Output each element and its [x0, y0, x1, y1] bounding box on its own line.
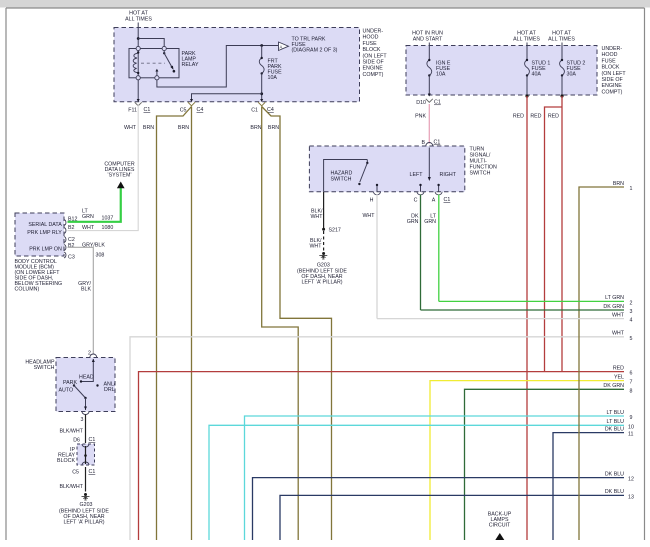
svg-text:(DIAGRAM 2 OF 3): (DIAGRAM 2 OF 3) [292, 48, 338, 54]
svg-text:RED: RED [513, 114, 524, 120]
svg-text:DK GRN: DK GRN [603, 304, 624, 310]
svg-text:SERIAL DATA: SERIAL DATA [28, 222, 62, 228]
svg-text:B: B [421, 140, 425, 146]
svg-text:LEFT ’A’ PILLAR): LEFT ’A’ PILLAR) [301, 280, 342, 286]
svg-text:9: 9 [630, 415, 633, 421]
wire WHT stub5 vertical [130, 337, 624, 540]
svg-text:G203: G203 [80, 502, 93, 508]
svg-text:BLK/WHT: BLK/WHT [59, 429, 83, 435]
turn signal internal feed [428, 148, 430, 178]
label UNDER-HOOD FUSE BLOCK (right box) [602, 46, 627, 95]
label BODY CONTROL MODULE [15, 259, 63, 293]
node fuse top junction [260, 44, 263, 47]
pin A inside [438, 186, 440, 192]
svg-text:4: 4 [630, 318, 633, 324]
svg-text:ENGINE: ENGINE [363, 66, 384, 72]
wire BLK/WHT hazard to S217 [323, 192, 325, 230]
wire DK BLU stub13 [280, 495, 624, 540]
svg-text:2: 2 [630, 301, 633, 307]
wire YEL stub7 [430, 381, 624, 540]
terminal C5/C4 [188, 102, 195, 106]
relay common pin [156, 71, 158, 76]
svg-text:A: A [280, 44, 283, 49]
svg-text:DK BLU: DK BLU [605, 471, 624, 477]
svg-text:D6: D6 [73, 438, 80, 444]
wire feed into fuse block 1 [137, 23, 139, 49]
terminal H cup [374, 192, 381, 195]
svg-text:8: 8 [630, 388, 633, 394]
svg-text:FUSE: FUSE [602, 58, 617, 64]
svg-text:5: 5 [630, 336, 633, 342]
terminal A cup [435, 192, 442, 195]
svg-text:UNDER-: UNDER- [363, 29, 384, 35]
hazard switch contact arm [366, 160, 368, 164]
label HAZARD SWITCH [331, 171, 353, 183]
node stud2 output [560, 94, 563, 97]
svg-text:SWITCH: SWITCH [331, 177, 352, 183]
wire DK GRN from C [420, 195, 422, 311]
wire LT BLU stub9 [245, 416, 625, 540]
svg-text:UNDER-: UNDER- [602, 46, 623, 52]
wire DK GRN stub8 [465, 389, 625, 540]
fuse symbol IGN E FUSE 10A [427, 60, 432, 76]
svg-text:F11: F11 [128, 108, 137, 114]
svg-text:HEAD: HEAD [79, 375, 94, 381]
ground G203 (headlamp) [84, 493, 87, 496]
svg-text:LT BLU: LT BLU [607, 419, 625, 425]
svg-text:YEL: YEL [614, 374, 624, 380]
svg-text:BRN: BRN [143, 125, 154, 131]
label UNDER-HOOD FUSE BLOCK (left box) [363, 29, 388, 78]
svg-text:C: C [414, 198, 418, 204]
relay terminal circles [136, 46, 140, 50]
wire DK GRN stub3 [421, 309, 625, 311]
turn signal / multifunction switch box [309, 146, 464, 192]
svg-text:11: 11 [628, 432, 634, 438]
svg-text:308: 308 [96, 253, 105, 259]
wire relay output to riser [157, 46, 278, 88]
svg-text:10A: 10A [436, 72, 446, 78]
svg-text:HOOD: HOOD [602, 52, 618, 58]
svg-text:12: 12 [628, 477, 634, 483]
svg-text:PARK: PARK [63, 380, 77, 386]
svg-text:ENGINE: ENGINE [602, 83, 623, 89]
wire WHT 1080 from B2 to fuse F11 [68, 104, 139, 231]
svg-text:10A: 10A [268, 75, 278, 81]
wire BLK/WHT S217 to G203 (dashed) [323, 231, 325, 252]
hazard switch wire [324, 160, 368, 192]
terminal C cup [417, 192, 424, 195]
page border right [644, 8, 646, 540]
wire PNK fuse to turn signal B [428, 104, 430, 144]
svg-text:2: 2 [88, 351, 91, 357]
svg-text:C1: C1 [144, 107, 151, 113]
svg-text:RED: RED [613, 365, 624, 371]
relay switch arm [163, 52, 165, 54]
wire LT GRN stub2 [439, 300, 624, 302]
wire label GRY/BLK mid [78, 281, 91, 293]
svg-text:COLUMN): COLUMN) [15, 287, 40, 293]
svg-text:WHT: WHT [362, 213, 375, 219]
wire RED stud1 down full page [526, 96, 528, 540]
wire DK BLU stub12 [253, 478, 625, 540]
wire into IGN E fuse [428, 43, 430, 61]
svg-text:G203: G203 [317, 263, 330, 269]
svg-text:BLOCK: BLOCK [57, 458, 75, 464]
svg-text:LEFT ’A’ PILLAR): LEFT ’A’ PILLAR) [63, 520, 104, 526]
svg-text:RED: RED [530, 114, 541, 120]
pin C inside [420, 186, 422, 192]
page border top [6, 7, 645, 9]
svg-text:SIDE OF: SIDE OF [602, 77, 624, 83]
svg-text:S217: S217 [329, 228, 341, 234]
wire LT GRN from A [438, 195, 440, 302]
svg-text:GRN: GRN [82, 214, 94, 220]
label HOT AT ALL TIMES (stud 1) [513, 31, 540, 43]
stub numbers right edge [628, 186, 634, 500]
svg-text:C1: C1 [434, 140, 441, 146]
arrow computer data lines [117, 182, 125, 189]
svg-text:C1: C1 [444, 197, 451, 203]
svg-text:10: 10 [628, 424, 634, 430]
FRT PARK fuse vertical [261, 46, 263, 59]
svg-text:(ON LEFT: (ON LEFT [602, 71, 627, 77]
svg-text:AND START: AND START [413, 37, 443, 43]
wire GRY/BLK 308 from B2 to headlamp switch [68, 247, 94, 354]
svg-text:PNK: PNK [415, 114, 426, 120]
svg-text:DK GRN: DK GRN [603, 383, 624, 389]
wire into STUD 1 fuse [526, 43, 528, 61]
wire DK BLU stub11 [553, 433, 624, 540]
svg-text:AUTO: AUTO [59, 388, 74, 394]
svg-text:C1: C1 [89, 437, 96, 443]
svg-text:C1: C1 [89, 469, 96, 475]
wire into STUD 2 fuse [561, 43, 563, 61]
pin H inside [376, 186, 378, 192]
svg-text:GRN: GRN [407, 219, 419, 225]
svg-text:CIRCUIT: CIRCUIT [489, 523, 511, 529]
svg-text:C3: C3 [68, 255, 75, 261]
relay coil [137, 51, 139, 77]
svg-text:SWITCH: SWITCH [34, 365, 55, 371]
park lamp relay box [129, 49, 179, 78]
label TURN SIGNAL/ MULTI-FUNCTION SWITCH [470, 147, 498, 177]
svg-text:WHT: WHT [612, 331, 625, 337]
wire BLK/WHT IP relay to G203 [85, 467, 87, 492]
label TO TRL PARK FUSE [292, 37, 338, 54]
wire BRN C1 right branch [262, 107, 332, 541]
BCM pin labels [68, 209, 113, 261]
svg-text:(ON LEFT: (ON LEFT [363, 53, 388, 59]
label PARK LAMP RELAY [182, 51, 199, 68]
wire WHT from H [376, 195, 378, 319]
fuse symbol FRT PARK FUSE [259, 58, 264, 74]
svg-text:1037: 1037 [102, 216, 114, 222]
svg-text:DRL: DRL [104, 387, 115, 393]
body control module box [15, 213, 64, 256]
IP relay block box [77, 444, 95, 465]
splice S217 [322, 228, 325, 231]
ground G203 (hazard) [322, 252, 325, 255]
svg-text:DK BLU: DK BLU [605, 489, 624, 495]
svg-text:COMPT): COMPT) [363, 72, 384, 78]
underhood fuse block 2 box [406, 46, 597, 96]
svg-text:COMPT): COMPT) [602, 89, 623, 95]
svg-text:3: 3 [81, 417, 84, 423]
svg-text:ALL TIMES: ALL TIMES [125, 17, 152, 23]
labels PARK HEAD AUTO ANL/DRL [59, 375, 116, 394]
terminal 2 cup [90, 354, 97, 358]
svg-text:C1: C1 [251, 108, 258, 114]
svg-text:A: A [432, 198, 436, 204]
wire through IP relay block [85, 446, 87, 464]
node stud1 output [525, 94, 528, 97]
svg-text:7: 7 [630, 380, 633, 386]
svg-text:WHT: WHT [310, 214, 323, 220]
underhood fuse block 1 box [114, 28, 360, 102]
label HOT AT ALL TIMES (stud 2) [548, 31, 575, 43]
svg-text:3: 3 [630, 309, 633, 315]
page border left [5, 8, 7, 540]
svg-text:BRN: BRN [250, 125, 261, 131]
fuse symbol STUD 1 FUSE 40A [525, 60, 530, 76]
wire LT BLU stub10 [209, 425, 624, 540]
wire WHT stub4 [377, 318, 624, 320]
headlamp switch arm [74, 386, 86, 399]
svg-text:WHT: WHT [124, 125, 137, 131]
svg-text:LEFT: LEFT [410, 172, 424, 178]
label LEFT / RIGHT [410, 172, 457, 178]
svg-text:D10: D10 [416, 100, 426, 106]
svg-text:13: 13 [628, 494, 634, 500]
svg-text:C5: C5 [72, 470, 79, 476]
terminal F11/C1 [135, 102, 142, 106]
svg-text:BRN: BRN [268, 125, 279, 131]
svg-text:PRK LMP RLY: PRK LMP RLY [27, 230, 62, 236]
svg-text:1: 1 [630, 186, 633, 192]
label HEADLAMP SWITCH [25, 360, 55, 372]
wire BRN C5 left branch [157, 107, 192, 541]
wire BLK/WHT headlamp to IP relay [85, 415, 87, 444]
svg-text:ALL TIMES: ALL TIMES [548, 37, 575, 43]
label FRT PARK FUSE 10A [268, 59, 283, 82]
svg-text:BLOCK: BLOCK [602, 65, 620, 71]
svg-text:BRN: BRN [613, 181, 624, 187]
svg-text:C4: C4 [197, 107, 204, 113]
svg-text:B2: B2 [68, 243, 75, 249]
wire RED stud2 with branch [561, 96, 563, 372]
wire relay to F11 terminal [137, 80, 139, 100]
terminal C1/C4 [258, 102, 265, 106]
svg-text:RED: RED [548, 114, 559, 120]
terminal B/C1 cup [426, 143, 433, 147]
wire RED stub6 [139, 372, 625, 540]
wire RED branch to 544 [545, 107, 563, 372]
svg-text:BLOCK: BLOCK [363, 47, 381, 53]
svg-text:FUSE: FUSE [363, 41, 378, 47]
wire BRN C1 left branch [262, 107, 299, 541]
wire C5/C4 terminal to fuse bottom [192, 94, 262, 100]
label HOT AT ALL TIMES (left) [125, 11, 152, 23]
svg-text:GRN: GRN [424, 219, 436, 225]
svg-text:30A: 30A [567, 72, 577, 78]
terminal 3 cup [82, 412, 89, 415]
svg-text:6: 6 [630, 371, 633, 377]
stub labels right edge [603, 181, 624, 495]
svg-text:DK BLU: DK BLU [605, 426, 624, 432]
fuse symbol STUD 2 FUSE 30A [560, 60, 565, 76]
back-up lamps circuit connector [488, 512, 512, 529]
label HOT IN RUN AND START [412, 31, 443, 43]
svg-text:LT GRN: LT GRN [605, 295, 624, 301]
svg-text:C1: C1 [434, 100, 441, 106]
svg-text:BRN: BRN [178, 125, 189, 131]
terminal D10/C1 [426, 99, 433, 103]
svg-text:RELAY: RELAY [182, 62, 199, 68]
svg-text:BLK: BLK [81, 287, 91, 293]
svg-text:SIDE OF: SIDE OF [363, 60, 385, 66]
wire BRN C5 right branch [191, 107, 193, 541]
label IP RELAY BLOCK [57, 447, 75, 464]
svg-text:H: H [370, 198, 374, 204]
svg-text:’SYSTEM’: ’SYSTEM’ [107, 173, 131, 179]
headlamp internal feed [81, 359, 93, 382]
svg-text:ALL TIMES: ALL TIMES [513, 37, 540, 43]
headlamp switch box [56, 358, 115, 412]
svg-text:WHT: WHT [309, 244, 322, 250]
svg-text:40A: 40A [532, 72, 542, 78]
svg-text:LT BLU: LT BLU [607, 410, 625, 416]
svg-text:WHT: WHT [612, 312, 625, 318]
wire branch to relay switch [138, 39, 164, 49]
relay mechanical link (dashed) [141, 62, 165, 64]
back-up lamps triangle [495, 533, 504, 540]
top gray bar [0, 0, 650, 8]
svg-text:BLK/WHT: BLK/WHT [59, 484, 83, 490]
node feed junction [137, 37, 140, 40]
label COMPUTER DATA LINES SYSTEM [104, 162, 135, 179]
svg-text:RIGHT: RIGHT [440, 172, 457, 178]
wire BRN stub1 [579, 187, 624, 540]
connector to TRL PARK fuse (triangle) [279, 42, 289, 51]
wire LT GRN serial data to computer data lines [68, 188, 121, 222]
svg-text:PRK LMP ON: PRK LMP ON [29, 247, 62, 253]
headlamp switch contacts [73, 384, 75, 386]
svg-text:SWITCH: SWITCH [470, 171, 491, 177]
BCM terminal cups [64, 220, 66, 226]
svg-text:HOOD: HOOD [363, 35, 379, 41]
